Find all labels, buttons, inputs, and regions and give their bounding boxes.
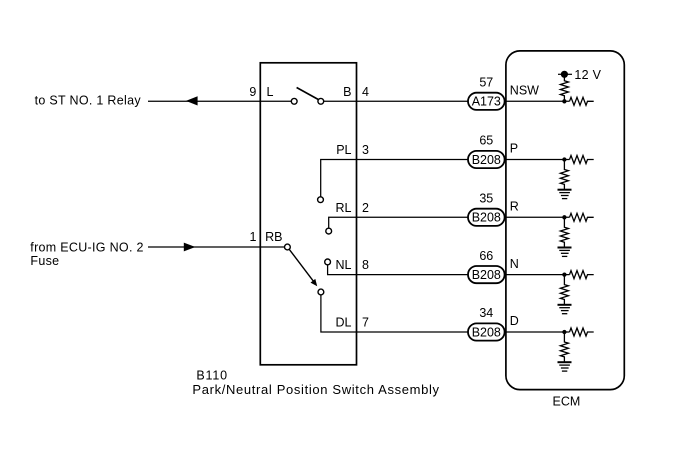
net D label <box>510 314 519 328</box>
arrowhead to relay (pointing left) <box>186 96 198 105</box>
svg-text:12 V: 12 V <box>574 68 601 82</box>
pin 4 label <box>362 85 369 99</box>
svg-text:34: 34 <box>479 306 493 320</box>
svg-text:D: D <box>510 314 519 328</box>
arrowhead from fuse (pointing right) <box>184 243 196 252</box>
ECM box U1 <box>506 51 624 390</box>
svg-text:NSW: NSW <box>510 84 539 98</box>
svg-text:B110: B110 <box>196 369 227 383</box>
ground (row R) <box>558 248 572 257</box>
svg-text:DL: DL <box>336 316 352 330</box>
connector B208 (pin 66) <box>468 266 505 283</box>
svg-text:A173: A173 <box>472 95 501 109</box>
switch contact circle (L side, pin 9) <box>291 98 297 104</box>
wire: to ST NO.1 Relay (row NSW left) <box>148 100 291 102</box>
resistor: N series (horizontal) <box>570 271 594 279</box>
wire: from ECU-IG NO.2 Fuse (row RB left) <box>148 246 285 248</box>
pin L label <box>267 85 274 99</box>
svg-text:RL: RL <box>336 201 352 215</box>
net N label <box>510 257 519 271</box>
svg-text:to ST NO. 1 Relay: to ST NO. 1 Relay <box>35 94 142 108</box>
resistor: D pull-down <box>560 332 568 362</box>
pin number 66 <box>479 249 493 263</box>
svg-text:NL: NL <box>336 258 352 272</box>
pin number 34 <box>479 306 493 320</box>
svg-text:8: 8 <box>362 258 369 272</box>
resistor: N pull-down <box>560 275 568 305</box>
svg-text:57: 57 <box>479 76 493 90</box>
svg-text:R: R <box>510 200 519 214</box>
12V supply node <box>558 71 572 77</box>
pin 8 label <box>362 258 369 272</box>
wire: row NSW from contact B to ECM resistor <box>324 100 570 102</box>
wire: row N from contact NL to ECM <box>328 265 570 275</box>
label: from ECU-IG NO. 2 Fuse <box>30 241 143 268</box>
net P label <box>510 142 518 156</box>
resistor: P pull-down <box>560 160 568 190</box>
junction node row P <box>562 157 566 161</box>
moving arm from RB toward DL contact <box>289 249 317 286</box>
connector B208 (pin 34) <box>468 323 505 340</box>
label 12 V <box>574 68 601 82</box>
pin 7 label <box>362 316 369 330</box>
net R label <box>510 200 519 214</box>
contact circle PL <box>318 197 324 203</box>
label ECM <box>553 395 581 409</box>
svg-text:Fuse: Fuse <box>30 254 59 268</box>
pin number 57 <box>479 76 493 90</box>
svg-text:B208: B208 <box>472 325 501 339</box>
junction node row NSW <box>562 99 566 103</box>
connector A173 (pin 57) <box>468 93 505 110</box>
label: to ST NO. 1 Relay <box>35 94 142 108</box>
switch blade (open) between L and B <box>297 88 319 100</box>
svg-text:B208: B208 <box>472 211 501 225</box>
wire: row R from pin 2 corner to ECM <box>329 217 570 228</box>
pin 1 label <box>249 230 256 244</box>
svg-text:65: 65 <box>479 134 493 148</box>
contact circle RB (pin 1) <box>285 244 291 250</box>
svg-text:66: 66 <box>479 249 493 263</box>
ground (row P) <box>558 190 572 199</box>
pin PL label <box>336 143 351 157</box>
svg-text:N: N <box>510 257 519 271</box>
svg-text:9: 9 <box>249 85 256 99</box>
svg-text:B: B <box>343 85 351 99</box>
pin RB label <box>265 230 282 244</box>
svg-text:4: 4 <box>362 85 369 99</box>
switch contact circle (B side, pin 4) <box>318 98 324 104</box>
svg-text:7: 7 <box>362 316 369 330</box>
pin RL label <box>336 201 352 215</box>
svg-text:35: 35 <box>479 192 493 206</box>
resistor: NSW series (horizontal) <box>570 97 594 105</box>
svg-text:B208: B208 <box>472 153 501 167</box>
connector B208 (pin 35) <box>468 209 505 226</box>
junction node row D <box>562 330 566 334</box>
resistor: NSW pull-up to 12V <box>560 77 568 101</box>
svg-text:PL: PL <box>336 143 351 157</box>
svg-text:from ECU-IG NO. 2: from ECU-IG NO. 2 <box>30 241 143 255</box>
svg-text:1: 1 <box>249 230 256 244</box>
wire: row D from contact DL down and to ECM <box>321 295 570 332</box>
pin NL label <box>336 258 352 272</box>
switch assembly box B110 <box>260 63 356 365</box>
junction node row N <box>562 272 566 276</box>
svg-text:3: 3 <box>362 143 369 157</box>
svg-text:L: L <box>267 85 274 99</box>
pin number 35 <box>479 192 493 206</box>
contact circle RL <box>326 228 332 234</box>
pin 3 label <box>362 143 369 157</box>
net NSW label <box>510 84 539 98</box>
pin B label <box>343 85 351 99</box>
label B110 <box>196 369 227 383</box>
contact circle DL <box>318 289 324 295</box>
resistor: R pull-down <box>560 217 568 247</box>
pin 2 label <box>362 201 369 215</box>
ground (row N) <box>558 305 572 314</box>
svg-text:P: P <box>510 142 518 156</box>
pin DL label <box>336 316 352 330</box>
contact circle NL <box>325 259 331 265</box>
ground (row D) <box>558 362 572 371</box>
svg-text:RB: RB <box>265 230 282 244</box>
connector B208 (pin 65) <box>468 151 505 168</box>
resistor: D series (horizontal) <box>570 328 594 336</box>
svg-text:ECM: ECM <box>553 395 581 409</box>
wire: row P from pin 3 corner to ECM <box>321 160 570 197</box>
resistor: R series (horizontal) <box>570 213 594 221</box>
svg-text:Park/Neutral Position Switch A: Park/Neutral Position Switch Assembly <box>192 382 439 397</box>
resistor: P series (horizontal) <box>570 156 594 164</box>
pin number 65 <box>479 134 493 148</box>
svg-text:B208: B208 <box>472 268 501 282</box>
junction node row R <box>562 215 566 219</box>
pin 9 label <box>249 85 256 99</box>
svg-text:2: 2 <box>362 201 369 215</box>
label Park/Neutral Position Switch Assembly <box>192 382 439 397</box>
